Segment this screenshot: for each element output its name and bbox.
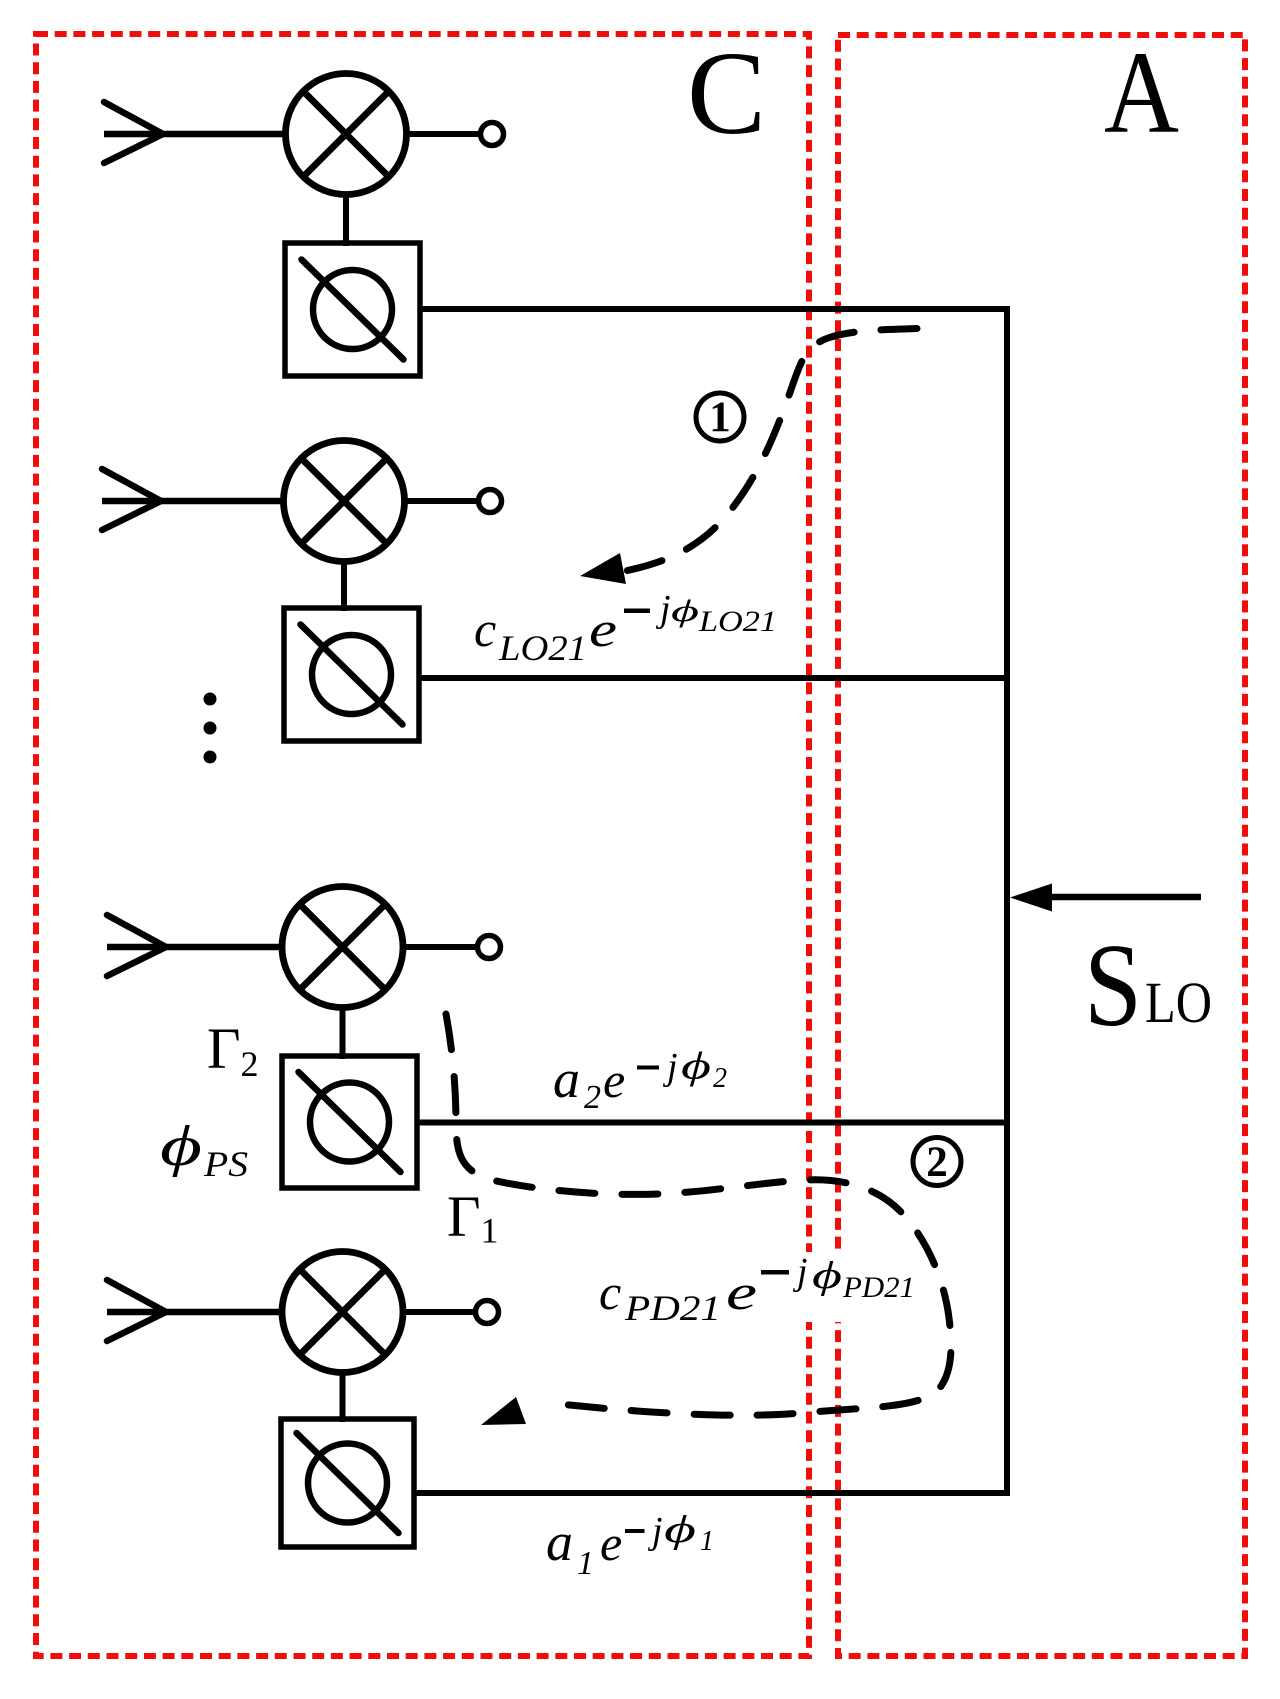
wire mixer2 to port2 xyxy=(406,498,480,504)
svg-text:S: S xyxy=(1084,919,1142,1051)
arrowhead of path 1 xyxy=(580,553,626,584)
dashed coupling path 2 (PD coupling) xyxy=(446,1014,951,1415)
mixer M4 xyxy=(282,1252,403,1373)
antenna ANT4 xyxy=(107,1280,166,1341)
wire mixer4 to PS4 xyxy=(340,1373,346,1422)
IF port P2 xyxy=(479,490,502,513)
wire antenna2 to mixer2 xyxy=(102,498,286,505)
phase shifter PS1 xyxy=(285,243,420,376)
wire PS4 to LO bus xyxy=(414,1490,1010,1496)
phase shifter PS4 xyxy=(281,1419,414,1547)
phase shifter PS2 xyxy=(284,608,419,741)
wire mixer1 to port1 xyxy=(408,131,482,137)
dashed box A (array boundary) xyxy=(838,35,1245,1656)
S_LO input arrow xyxy=(1048,894,1201,901)
wire antenna3 to mixer3 xyxy=(107,944,284,951)
mixer M3 xyxy=(282,887,403,1008)
svg-text:1: 1 xyxy=(709,394,731,441)
antenna ANT2 xyxy=(102,469,161,530)
wire antenna4 to mixer4 xyxy=(107,1309,284,1316)
ellipsis dots (more channels) xyxy=(204,693,217,764)
svg-text:a2ejϕ2: a2ejϕ2 xyxy=(553,1046,727,1117)
svg-text:a1ejϕ1: a1ejϕ1 xyxy=(546,1509,714,1582)
white mask under c_PD21 label xyxy=(700,1252,918,1322)
label c_PD21 e^-j phi_PD21 xyxy=(761,1270,789,1275)
wire mixer1 to PS1 xyxy=(343,195,349,246)
svg-text:C: C xyxy=(687,27,766,159)
LO distribution bus xyxy=(1004,309,1010,1493)
IF port P1 xyxy=(481,123,504,146)
svg-text:A: A xyxy=(1104,27,1179,158)
wire mixer2 to PS2 xyxy=(341,562,347,611)
label c_LO21 e^-j phi_LO21 xyxy=(624,609,650,614)
svg-text:PS: PS xyxy=(203,1144,248,1184)
antenna ANT3 xyxy=(107,915,166,976)
dashed box C (chip boundary) xyxy=(36,34,809,1656)
wire PS1 to LO bus xyxy=(420,306,1010,312)
wire mixer4 to port4 xyxy=(404,1309,476,1315)
svg-text:Γ2: Γ2 xyxy=(207,1016,259,1084)
IF port P3 xyxy=(478,936,501,959)
IF port P4 xyxy=(476,1301,499,1324)
wire PS2 to LO bus xyxy=(419,675,1010,681)
label a_1 e^-j phi_1 xyxy=(625,1529,645,1533)
svg-text:ϕ: ϕ xyxy=(160,1115,202,1178)
antenna ANT1 xyxy=(104,102,163,163)
svg-text:2: 2 xyxy=(926,1139,948,1186)
circled 2 xyxy=(913,1138,961,1186)
dashed coupling path 1 (LO leakage) xyxy=(625,329,917,572)
arrowhead of path 2 xyxy=(481,1397,526,1425)
phase shifter PS3 xyxy=(282,1056,417,1188)
label a_2 e^-j phi_2 xyxy=(637,1066,659,1070)
wire antenna1 to mixer1 xyxy=(104,131,288,138)
mixer M2 xyxy=(284,441,405,562)
mixer M1 xyxy=(286,74,407,195)
circled 1 xyxy=(696,393,744,441)
wire mixer3 to port3 xyxy=(404,944,478,950)
svg-text:cLO21ejϕLO21: cLO21ejϕLO21 xyxy=(474,588,777,668)
svg-text:Γ1: Γ1 xyxy=(447,1184,499,1251)
svg-text:LO: LO xyxy=(1145,970,1212,1035)
wire PS3 to LO bus xyxy=(417,1120,1010,1126)
wire mixer3 to PS3 xyxy=(340,1008,346,1059)
